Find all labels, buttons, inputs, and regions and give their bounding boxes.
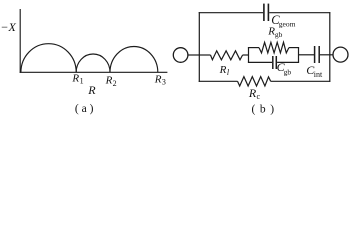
svg-text:R: R [71,72,79,84]
semicircle arc 2 [76,54,110,72]
wire: block to capacitor C_int [299,54,315,56]
semicircle arc 1 [21,44,76,73]
wire: C_int to right rail [320,54,330,56]
resistor R_c [238,77,271,86]
bottom rail wire right segment [271,80,331,82]
svg-text:2: 2 [113,79,117,88]
svg-text:−X: −X [0,20,16,34]
capacitor C_gb plates [272,56,274,69]
svg-text:gb: gb [275,30,283,39]
svg-text:R: R [87,83,96,97]
parallel block top wire right stub [289,47,299,49]
svg-text:(a): (a) [75,103,96,115]
svg-text:R: R [105,75,113,87]
svg-text:gb: gb [284,67,292,76]
wire: left rail to resistor R_l [199,54,210,56]
semicircle arc 3 [110,47,158,73]
top rail wire left segment [199,12,264,14]
y-axis (-X) of plot (a) [19,9,21,73]
svg-text:c: c [257,92,261,101]
bottom rail wire left segment [199,80,238,82]
top rail wire right segment [269,12,330,14]
wire: R_l to parallel block [243,54,249,56]
svg-text:R: R [154,73,162,85]
svg-text:R: R [219,64,227,76]
wire: left terminal to left rail [188,54,199,56]
svg-text:1: 1 [80,77,84,86]
right rail wire [329,12,331,82]
svg-text:int: int [314,70,323,79]
parallel block right vertical wire [298,48,300,63]
wire: right rail to right terminal [330,54,334,56]
resistor R_gb [259,42,289,53]
resistor R_l [211,51,243,60]
parallel block bottom wire left stub [248,61,272,63]
capacitor C_geom plates [263,4,265,21]
svg-text:3: 3 [162,78,166,87]
x-axis (R) of plot (a) [20,71,168,73]
parallel block top wire left stub [248,47,259,49]
left rail wire [198,12,200,82]
svg-text:geom: geom [279,19,296,28]
left terminal circle [173,48,188,63]
right terminal circle [333,47,348,62]
capacitor C_int plates [314,46,316,63]
parallel block bottom wire right stub [277,61,299,63]
svg-text:(b): (b) [252,103,279,115]
parallel block left vertical wire [248,48,250,63]
